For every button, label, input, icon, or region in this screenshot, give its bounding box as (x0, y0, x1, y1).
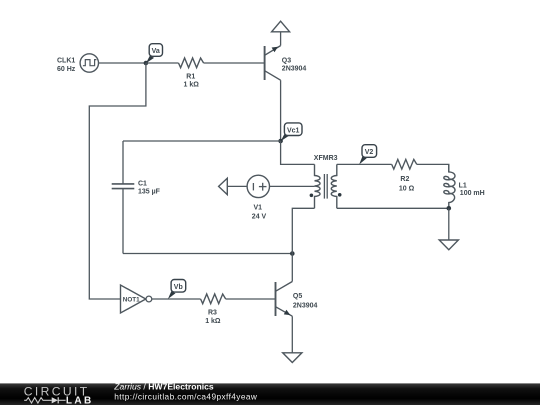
wire Q3 collector down to Vc1 (280, 80, 282, 141)
ground (bottom) (283, 353, 302, 363)
wire secondary top to R2 (337, 163, 392, 165)
node Vb (168, 280, 186, 300)
svg-text:Vb: Vb (174, 284, 183, 291)
wire transformer primary bottom to Q5 collector (292, 208, 314, 281)
svg-text:10 Ω: 10 Ω (399, 186, 415, 193)
wire Vc1 down to transformer primary top (281, 141, 315, 164)
input flag (left triangle) (219, 178, 228, 194)
resistor R3 (201, 294, 226, 325)
footer bar (0, 381, 540, 405)
power flag (supply triangle) (272, 21, 290, 32)
wire NOT output to R3 (152, 298, 201, 300)
svg-text:100 mH: 100 mH (460, 190, 485, 197)
svg-text:XFMR3: XFMR3 (314, 155, 338, 162)
svg-text:Vc1: Vc1 (287, 127, 300, 134)
svg-text:2N3904: 2N3904 (293, 303, 318, 310)
svg-text:135 µF: 135 µF (138, 189, 161, 196)
node secondary-ground junction (447, 206, 452, 211)
svg-text:Q3: Q3 (282, 57, 291, 64)
wire C1 bottom to Q5 collector node (123, 253, 292, 255)
svg-text:1 kΩ: 1 kΩ (205, 318, 221, 325)
transistor Q3 (265, 46, 307, 81)
svg-text:R2: R2 (400, 176, 409, 183)
svg-text:NOT1: NOT1 (123, 296, 140, 303)
wire Q3 emitter to power flag (280, 32, 282, 46)
resistor R1 (179, 58, 204, 88)
wire V1 right to center tap (270, 185, 315, 187)
transformer XFMR3 (310, 155, 342, 208)
svg-text:R3: R3 (208, 310, 217, 317)
svg-text:http://circuitlab.com/ca49pxff: http://circuitlab.com/ca49pxff4yeaw (114, 392, 258, 402)
svg-text:CLK1: CLK1 (57, 57, 75, 64)
wire L1 bottom / secondary bottom rail (337, 207, 449, 209)
wire R2 to L1 (417, 164, 449, 172)
wire clk to Va junction (99, 62, 146, 64)
NOT gate NOT1 (121, 285, 152, 313)
svg-text:60 Hz: 60 Hz (57, 66, 76, 73)
wire R1 to Q3 base (204, 62, 264, 64)
svg-text:L1: L1 (459, 182, 467, 189)
wire V1 left to input flag (227, 185, 247, 187)
ground (right) (439, 240, 458, 250)
node Vc1 (278, 123, 302, 143)
svg-text:LAB: LAB (66, 395, 94, 405)
svg-text:Q5: Q5 (293, 293, 302, 300)
svg-text:R1: R1 (186, 74, 195, 81)
svg-text:C1: C1 (138, 181, 147, 188)
svg-text:V2: V2 (365, 149, 374, 156)
svg-text:Zarrius / HW7Electronics: Zarrius / HW7Electronics (113, 381, 214, 391)
capacitor C1 (112, 141, 161, 254)
wire R3 to Q5 base (226, 298, 275, 300)
voltage source V1 (247, 175, 269, 220)
transistor Q5 (276, 282, 318, 317)
wire Va to R1 (146, 62, 179, 64)
clock source CLK1 (57, 54, 99, 73)
svg-text:1 kΩ: 1 kΩ (184, 81, 200, 88)
CircuitLab logo (24, 384, 94, 405)
inductor L1 (444, 164, 485, 208)
svg-text:Va: Va (152, 48, 160, 55)
wire Va junction down-left to NOT input (89, 63, 146, 299)
svg-text:V1: V1 (254, 204, 263, 211)
wire Q5 emitter to ground (291, 316, 293, 353)
svg-text:2N3904: 2N3904 (282, 65, 307, 72)
node Va (144, 44, 163, 66)
wire Vc1 to C1 top (123, 140, 281, 142)
svg-text:24 V: 24 V (252, 214, 267, 221)
resistor R2 (392, 159, 417, 192)
node V2 (359, 145, 376, 165)
node junction C1/Q5/transformer (290, 251, 295, 256)
wire down to ground (448, 208, 450, 240)
